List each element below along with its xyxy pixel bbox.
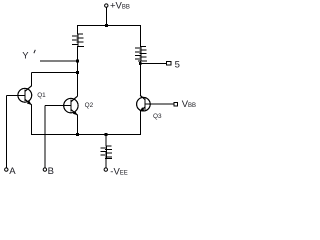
svg-text:+VBB: +VBB xyxy=(110,0,130,11)
svg-text:A: A xyxy=(9,166,16,177)
svg-text:Q1: Q1 xyxy=(37,92,46,99)
svg-text:-VEE: -VEE xyxy=(110,166,128,177)
svg-text:VBB: VBB xyxy=(182,99,196,110)
svg-text:Q2: Q2 xyxy=(85,102,94,109)
svg-text:Q3: Q3 xyxy=(153,113,162,120)
svg-text:Y: Y xyxy=(22,50,29,61)
svg-text:5: 5 xyxy=(175,59,180,70)
svg-text:B: B xyxy=(48,166,54,177)
